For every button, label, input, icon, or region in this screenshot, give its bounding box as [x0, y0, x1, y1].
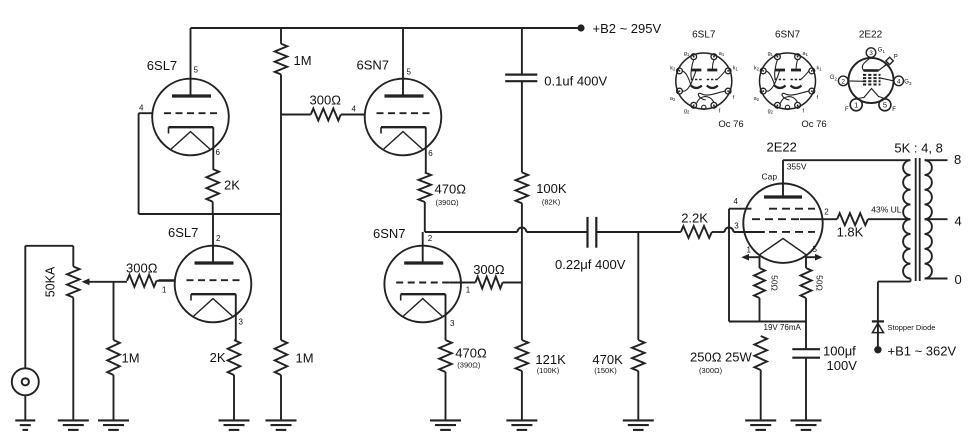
svg-text:a2: a2: [670, 96, 676, 102]
svg-text:6SN7: 6SN7: [775, 30, 800, 41]
svg-text:1M: 1M: [294, 53, 312, 68]
svg-text:2E22: 2E22: [859, 30, 883, 41]
svg-text:50KA: 50KA: [44, 266, 58, 297]
svg-text:+B1 ~ 362V: +B1 ~ 362V: [888, 344, 957, 359]
svg-text:F: F: [845, 107, 849, 113]
svg-text:Stopper Diode: Stopper Diode: [888, 323, 936, 332]
svg-text:355V: 355V: [787, 162, 807, 172]
svg-text:1: 1: [854, 101, 858, 110]
svg-text:1: 1: [466, 286, 471, 295]
svg-text:50Ω: 50Ω: [815, 275, 825, 291]
svg-text:470Ω: 470Ω: [435, 182, 467, 197]
svg-text:470Ω: 470Ω: [455, 346, 487, 361]
svg-text:4: 4: [897, 78, 901, 85]
svg-text:1: 1: [162, 286, 167, 295]
svg-text:Oc 76: Oc 76: [801, 119, 826, 130]
svg-text:1: 1: [747, 246, 752, 255]
svg-text:6SL7: 6SL7: [168, 225, 198, 240]
svg-text:F: F: [892, 107, 896, 113]
svg-text:3: 3: [450, 319, 455, 328]
svg-text:2: 2: [216, 234, 221, 243]
svg-text:100V: 100V: [827, 358, 858, 373]
svg-text:470K: 470K: [592, 352, 623, 367]
svg-text:300Ω: 300Ω: [310, 93, 342, 108]
svg-text:5: 5: [407, 68, 412, 77]
svg-text:0.22μf 400V: 0.22μf 400V: [555, 257, 626, 272]
svg-text:+B2 ~ 295V: +B2 ~ 295V: [593, 21, 662, 36]
svg-text:300Ω: 300Ω: [473, 262, 505, 277]
svg-text:1M: 1M: [122, 351, 140, 366]
svg-text:5: 5: [813, 245, 818, 254]
svg-text:g1: g1: [768, 51, 774, 57]
svg-text:(390Ω): (390Ω): [457, 361, 481, 370]
svg-text:1.8K: 1.8K: [837, 225, 864, 240]
svg-text:5: 5: [194, 66, 199, 75]
svg-text:3: 3: [239, 318, 244, 327]
svg-text:2.2K: 2.2K: [681, 211, 708, 226]
svg-text:2E22: 2E22: [767, 140, 797, 155]
svg-text:(390Ω): (390Ω): [436, 198, 460, 207]
svg-text:3: 3: [869, 50, 873, 57]
svg-text:4: 4: [734, 197, 739, 206]
svg-text:4: 4: [352, 105, 357, 114]
svg-text:g2: g2: [684, 109, 690, 115]
svg-text:G3: G3: [904, 80, 912, 86]
svg-text:3: 3: [734, 222, 739, 231]
svg-text:250Ω 25W: 250Ω 25W: [690, 350, 752, 365]
svg-text:6: 6: [216, 148, 221, 157]
svg-text:k2: k2: [754, 66, 760, 72]
svg-text:6: 6: [428, 149, 433, 158]
svg-text:5K : 4, 8: 5K : 4, 8: [894, 141, 942, 156]
svg-text:k1: k1: [733, 66, 739, 72]
svg-text:G1: G1: [878, 48, 886, 54]
svg-text:50Ω: 50Ω: [770, 275, 780, 291]
svg-text:(150K): (150K): [594, 366, 617, 375]
svg-text:6SL7: 6SL7: [147, 58, 177, 73]
svg-text:2: 2: [428, 234, 433, 243]
svg-text:2: 2: [824, 208, 829, 217]
svg-text:6SL7: 6SL7: [692, 30, 716, 41]
svg-text:0.1uf 400V: 0.1uf 400V: [544, 74, 607, 89]
svg-text:P: P: [894, 55, 898, 61]
svg-text:(100K): (100K): [537, 366, 560, 375]
svg-text:100μf: 100μf: [823, 344, 856, 359]
svg-text:k2: k2: [670, 66, 676, 72]
svg-text:4: 4: [139, 104, 144, 113]
svg-text:G2: G2: [830, 75, 838, 81]
svg-text:6SN7: 6SN7: [373, 226, 406, 241]
svg-text:g2: g2: [768, 109, 774, 115]
svg-text:100K: 100K: [536, 181, 567, 196]
svg-text:a2: a2: [754, 96, 760, 102]
svg-text:2K: 2K: [224, 178, 240, 193]
svg-text:2: 2: [841, 78, 845, 85]
svg-text:43% UL: 43% UL: [871, 205, 902, 215]
svg-text:1M: 1M: [296, 351, 314, 366]
svg-text:300Ω: 300Ω: [126, 261, 158, 276]
svg-text:6SN7: 6SN7: [357, 58, 390, 73]
svg-text:a1: a1: [719, 51, 725, 57]
svg-text:2K: 2K: [210, 350, 226, 365]
svg-text:8: 8: [954, 152, 961, 167]
svg-text:g1: g1: [684, 51, 690, 57]
svg-text:19V 76mA: 19V 76mA: [764, 323, 802, 332]
svg-text:Oc 76: Oc 76: [718, 119, 743, 130]
svg-text:(82K): (82K): [542, 197, 561, 206]
svg-text:k1: k1: [817, 66, 823, 72]
svg-text:5: 5: [883, 101, 887, 110]
svg-text:121K: 121K: [535, 352, 566, 367]
svg-text:4: 4: [955, 213, 962, 228]
svg-text:(300Ω): (300Ω): [699, 366, 723, 375]
svg-text:a1: a1: [803, 51, 809, 57]
svg-text:0: 0: [955, 272, 962, 287]
svg-text:Cap: Cap: [762, 172, 778, 182]
